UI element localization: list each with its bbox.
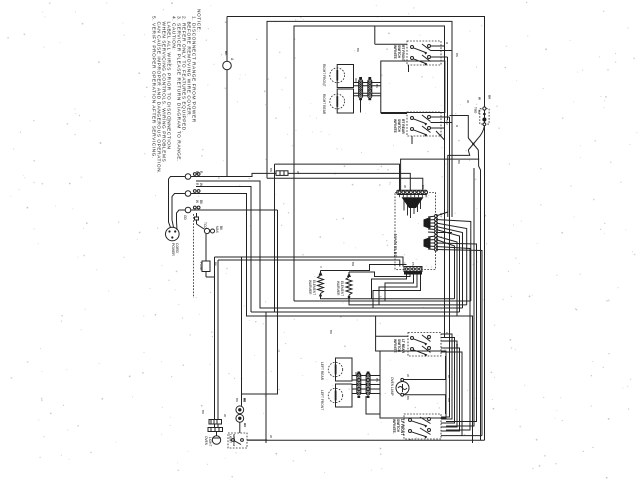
wire — [436, 230, 460, 313]
wire — [428, 231, 436, 234]
fuse circle on lamp line — [223, 17, 234, 177]
wire — [417, 204, 419, 212]
wire — [210, 428, 212, 432]
svg-text:RT REAR: RT REAR — [401, 119, 405, 134]
wire — [226, 17, 228, 62]
wire — [205, 234, 207, 261]
svg-text:W: W — [403, 185, 407, 188]
svg-text:P5: P5 — [411, 262, 415, 266]
svg-text:BK: BK — [421, 185, 425, 189]
upper switch bank A — [375, 26, 452, 120]
wire — [385, 275, 414, 302]
svg-text:FUSE: FUSE — [199, 262, 203, 271]
wire — [320, 294, 322, 299]
wire — [441, 352, 462, 436]
wire — [441, 334, 452, 419]
wire — [413, 208, 415, 215]
wire — [294, 300, 471, 302]
svg-text:W: W — [447, 375, 451, 378]
wire — [399, 195, 401, 198]
wires from terminals to control board top — [183, 164, 473, 443]
wire — [374, 26, 376, 44]
wire X arm — [468, 138, 478, 150]
wire — [366, 396, 380, 414]
svg-text:BK: BK — [455, 344, 459, 348]
wire — [379, 275, 417, 305]
wire — [283, 171, 285, 176]
wire — [422, 126, 431, 133]
wire — [421, 195, 423, 198]
wire — [241, 257, 243, 406]
wire — [420, 428, 431, 435]
wire — [354, 85, 381, 87]
wire — [413, 48, 427, 53]
wire — [413, 119, 427, 124]
svg-text:WARMER: WARMER — [308, 280, 312, 295]
wire — [436, 223, 467, 305]
wire — [196, 213, 198, 224]
oven light feed wires — [215, 210, 404, 443]
warmer wiring — [321, 265, 467, 309]
wire — [191, 209, 278, 211]
wire — [422, 115, 431, 122]
svg-text:RT FRONT: RT FRONT — [401, 45, 405, 62]
wire — [360, 98, 362, 113]
wire — [247, 439, 267, 441]
wire — [436, 236, 457, 316]
right connector cluster 1 — [424, 212, 471, 312]
wire — [177, 210, 186, 230]
wire — [418, 195, 420, 198]
wire — [436, 212, 448, 217]
svg-text:SWITCH: SWITCH — [232, 434, 236, 446]
left front burner — [320, 384, 352, 410]
wire — [214, 428, 216, 432]
oven light connectors bottom-left — [201, 410, 227, 446]
svg-text:BK: BK — [201, 410, 205, 414]
wire — [422, 335, 431, 342]
wire — [420, 200, 422, 209]
wire — [349, 297, 467, 305]
wire L3 top — [294, 26, 445, 337]
wire — [431, 122, 453, 124]
wire — [422, 346, 431, 353]
svg-text:BK: BK — [375, 84, 379, 88]
right long verticals — [441, 117, 450, 417]
wire — [406, 195, 408, 198]
svg-text:LT REAR: LT REAR — [401, 339, 405, 354]
wire bankB exit diagonal — [436, 131, 445, 140]
wire — [372, 275, 407, 299]
svg-text:INFINITE: INFINITE — [393, 339, 397, 354]
wire — [191, 194, 473, 444]
wire — [352, 379, 380, 381]
wire — [354, 82, 381, 84]
wire — [422, 44, 431, 51]
wire — [247, 439, 485, 441]
svg-text:BK: BK — [477, 110, 481, 114]
wire — [431, 116, 450, 118]
wire — [318, 276, 324, 294]
wire — [349, 272, 410, 277]
wire — [169, 177, 186, 228]
svg-text:ELEMENT: ELEMENT — [312, 280, 316, 295]
wire — [428, 225, 436, 228]
wire — [441, 435, 482, 437]
wire — [321, 296, 455, 299]
wire — [420, 417, 431, 424]
wire — [376, 316, 380, 351]
svg-text:GY: GY — [439, 213, 443, 217]
svg-text:SWITCH: SWITCH — [396, 419, 400, 433]
wire — [196, 187, 251, 313]
wire — [431, 45, 445, 47]
svg-text:W: W — [269, 435, 273, 438]
wire — [404, 395, 446, 414]
lower oven big box — [380, 351, 446, 418]
wire — [407, 204, 409, 216]
wire L2 top — [267, 21, 452, 217]
wire — [436, 247, 470, 431]
wire — [275, 164, 400, 190]
svg-text:SWITCH: SWITCH — [397, 119, 401, 133]
svg-text:RIGHT FRONT: RIGHT FRONT — [322, 64, 326, 86]
wire — [441, 348, 460, 431]
wire — [352, 375, 380, 377]
svg-text:BK: BK — [242, 398, 246, 402]
svg-text:SWITCH: SWITCH — [397, 339, 401, 353]
wire — [348, 272, 350, 277]
wire — [428, 236, 436, 237]
svg-text:SWITCH: SWITCH — [397, 45, 401, 59]
wire — [414, 195, 416, 198]
wire — [274, 164, 276, 312]
svg-text:W: W — [199, 183, 203, 186]
wire — [242, 210, 278, 394]
svg-text:BK: BK — [406, 396, 410, 400]
wire — [191, 173, 410, 190]
wire — [436, 250, 482, 436]
wire — [375, 43, 407, 45]
wire — [213, 420, 215, 425]
pass-through vertical wire — [446, 168, 474, 426]
TOD thermal cutoff on right line — [474, 95, 492, 126]
svg-text:W: W — [478, 97, 482, 100]
svg-text:INFINITE: INFINITE — [393, 119, 397, 134]
lower switch bank C — [376, 316, 462, 436]
svg-text:INFINITE: INFINITE — [393, 45, 397, 60]
wire — [279, 171, 281, 176]
wire — [431, 127, 445, 129]
upper connector strips — [354, 77, 381, 113]
wire — [212, 437, 220, 439]
wire — [354, 95, 381, 97]
wire — [267, 178, 423, 190]
inline connector on wire — [276, 171, 288, 176]
wire — [403, 200, 405, 211]
wire — [428, 242, 436, 244]
wire — [441, 341, 457, 427]
wire — [409, 439, 411, 440]
svg-text:GD: GD — [183, 215, 187, 220]
warmer element 1 — [308, 271, 324, 299]
wire — [218, 428, 220, 432]
wire — [428, 228, 436, 231]
svg-text:BK: BK — [455, 53, 459, 57]
svg-text:BK: BK — [224, 51, 228, 56]
wire — [428, 216, 436, 217]
wire — [321, 265, 407, 271]
svg-text:TCO: TCO — [203, 222, 207, 229]
wire TOD to X — [478, 126, 484, 138]
wire — [447, 57, 449, 120]
wire — [320, 271, 322, 276]
bottom connector — [404, 267, 422, 275]
wire — [210, 420, 212, 425]
wire — [376, 335, 408, 337]
svg-text:LF FRONT: LF FRONT — [400, 419, 404, 435]
svg-text:ELEMENT: ELEMENT — [340, 281, 344, 296]
svg-text:LEFT FRONT: LEFT FRONT — [320, 390, 324, 410]
lower switch bank D — [392, 414, 441, 440]
transformer blob — [400, 195, 427, 219]
svg-text:INFINITE: INFINITE — [392, 419, 396, 434]
oven lamp — [390, 356, 446, 414]
middle bus nest — [247, 301, 485, 440]
wire — [373, 275, 421, 309]
right connector cluster 2 — [424, 235, 483, 436]
wire — [214, 257, 216, 420]
upper oven big box — [381, 61, 445, 113]
light switch — [228, 433, 267, 448]
svg-text:RIGHT REAR: RIGHT REAR — [322, 94, 326, 115]
wire — [239, 422, 241, 433]
wire — [197, 224, 205, 229]
wire — [346, 277, 352, 295]
wires: top-left corner nest — [227, 17, 485, 441]
wire — [214, 424, 216, 428]
wire — [217, 260, 219, 420]
svg-text:5. VERIFY PROPER OPERATION AFT: 5. VERIFY PROPER OPERATION AFTER SERVICI… — [151, 16, 157, 159]
warmer element 2 — [336, 272, 352, 305]
wire — [431, 50, 453, 52]
wire — [352, 384, 380, 386]
svg-text:BK: BK — [457, 160, 461, 164]
upper switch bank B — [381, 112, 452, 136]
svg-text:BK: BK — [447, 398, 451, 402]
wire — [196, 181, 463, 308]
svg-text:LIGHT: LIGHT — [208, 437, 212, 446]
wire X arm — [468, 138, 478, 150]
wire — [216, 432, 218, 437]
svg-text:BK: BK — [375, 378, 379, 382]
svg-text:W: W — [406, 374, 410, 377]
indicator lights — [235, 398, 247, 433]
wire — [428, 245, 436, 248]
fuse F1 — [199, 234, 217, 277]
dashed chassis line — [193, 214, 195, 298]
wire X to cluster riser — [448, 150, 470, 212]
wire — [413, 59, 427, 64]
svg-text:TOD: TOD — [474, 107, 478, 114]
svg-text:CORD: CORD — [175, 243, 179, 254]
svg-text:MAIN ELEC: MAIN ELEC — [393, 234, 398, 258]
TCO component — [195, 213, 224, 234]
wire — [402, 384, 404, 392]
wire — [205, 272, 207, 278]
wire colour labels sprinkled — [242, 42, 470, 438]
wire — [352, 388, 380, 390]
wire — [428, 239, 436, 242]
wire — [217, 424, 219, 428]
wire — [428, 219, 436, 222]
wire — [413, 339, 427, 344]
oven light lamp — [212, 436, 220, 444]
wire — [381, 113, 407, 115]
wire — [411, 421, 427, 426]
svg-text:V: V — [319, 266, 323, 268]
wire — [441, 338, 455, 424]
wire — [206, 257, 215, 277]
wire — [218, 260, 400, 267]
svg-text:BK: BK — [329, 330, 333, 334]
wire — [408, 65, 410, 72]
wire — [436, 220, 471, 302]
svg-text:W: W — [466, 100, 470, 103]
svg-text:BK: BK — [269, 168, 273, 172]
wire — [251, 311, 460, 313]
wire — [410, 195, 412, 198]
svg-text:LEFT REAR: LEFT REAR — [320, 362, 324, 381]
terminal block — [185, 173, 200, 213]
wire — [413, 130, 427, 135]
wire — [428, 222, 436, 224]
left rear burner — [320, 358, 352, 381]
wire — [413, 350, 427, 355]
wire — [410, 208, 412, 219]
wire — [422, 55, 431, 62]
wire bankB bottom stub — [411, 136, 413, 144]
wire — [172, 194, 185, 228]
wire — [441, 117, 450, 417]
switch contact arrows — [424, 52, 427, 55]
control board dashed box — [393, 190, 482, 435]
wire — [265, 312, 267, 443]
svg-text:W: W — [223, 414, 227, 417]
wire — [402, 195, 404, 198]
wire — [234, 441, 241, 445]
wire — [436, 232, 452, 234]
svg-text:OVEN LAMP: OVEN LAMP — [390, 377, 394, 396]
wire — [215, 257, 404, 267]
wire — [352, 393, 380, 395]
wire L1 top — [227, 17, 485, 441]
right front burner — [322, 64, 354, 88]
wire — [404, 356, 446, 380]
wire — [431, 56, 448, 58]
svg-text:LIGHT: LIGHT — [229, 434, 233, 443]
svg-text:BK: BK — [235, 398, 239, 402]
svg-text:Y: Y — [439, 236, 443, 238]
wire — [411, 432, 427, 437]
svg-text:W: W — [296, 171, 300, 174]
wire labels at terminals — [183, 171, 203, 220]
wire — [226, 70, 228, 177]
lower connector strips — [352, 372, 380, 415]
svg-text:W: W — [195, 200, 199, 203]
wire — [436, 240, 455, 299]
wire X to board pin — [401, 150, 479, 190]
top connector row — [397, 190, 428, 194]
notice text block — [151, 9, 202, 174]
wire — [479, 159, 481, 440]
X crossing — [401, 116, 485, 441]
svg-text:WARMER: WARMER — [336, 281, 340, 296]
right rear burner — [322, 89, 354, 115]
wire — [354, 92, 381, 94]
wire — [425, 195, 427, 198]
wire — [428, 248, 436, 251]
svg-text:OVEN: OVEN — [204, 436, 208, 446]
wire — [348, 295, 350, 305]
svg-text:BK: BK — [356, 48, 360, 52]
power cord plug — [166, 177, 186, 257]
wire — [436, 243, 477, 422]
wire bankB row to X — [450, 116, 469, 139]
svg-text:MAX: MAX — [215, 226, 219, 234]
wire — [216, 420, 218, 425]
svg-text:POWER: POWER — [171, 243, 175, 256]
wire — [436, 227, 463, 309]
